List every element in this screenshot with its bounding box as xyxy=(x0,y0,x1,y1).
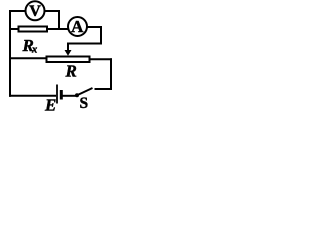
switch S xyxy=(75,88,93,97)
svg-text:x: x xyxy=(31,45,37,56)
wire ammeter right xyxy=(87,26,102,28)
wire voltmeter right xyxy=(45,10,61,12)
resistor Rx xyxy=(19,27,48,32)
wire voltmeter down xyxy=(58,10,60,30)
label R xyxy=(65,62,77,81)
wire rheostat left xyxy=(9,57,46,59)
ammeter A xyxy=(68,17,87,36)
svg-text:A: A xyxy=(71,17,84,36)
wire to slider xyxy=(67,43,102,45)
wire Rx to ammeter xyxy=(48,28,68,30)
wire bottom left xyxy=(9,95,56,97)
wire voltmeter left xyxy=(9,10,26,12)
wire bottom right xyxy=(95,88,113,90)
wire left rail xyxy=(9,11,11,97)
label E xyxy=(44,96,56,115)
wire resistor Rx left xyxy=(9,28,18,30)
label Rx xyxy=(22,36,38,56)
battery E xyxy=(57,85,61,104)
svg-text:E: E xyxy=(44,96,56,115)
wire right rail down xyxy=(110,58,112,90)
svg-text:S: S xyxy=(80,95,89,112)
wire battery to switch xyxy=(63,95,78,97)
rheostat R xyxy=(47,57,90,63)
voltmeter V xyxy=(26,1,45,20)
svg-text:R: R xyxy=(65,62,77,81)
rheostat slider arrow xyxy=(65,43,72,56)
wire right mid rail down xyxy=(100,26,102,45)
svg-text:V: V xyxy=(29,3,41,20)
wire rheostat right xyxy=(90,58,113,60)
label S xyxy=(80,95,89,112)
